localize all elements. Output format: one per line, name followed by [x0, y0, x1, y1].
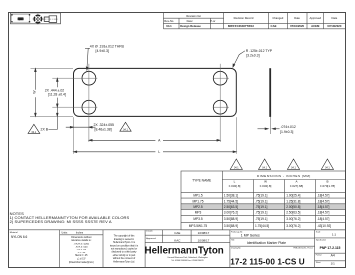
svg-text:1.00[25.4]: 1.00[25.4] — [286, 194, 300, 198]
svg-text:MP2.5: MP2.5 — [193, 205, 202, 209]
svg-text:.75[19.1]: .75[19.1] — [255, 211, 268, 215]
svg-text:3.50[88.9]: 3.50[88.9] — [224, 224, 238, 228]
svg-text:3.00[76.2]: 3.00[76.2] — [286, 217, 300, 221]
svg-text:2) SUPERCEDES DRAWING: MI SSSS: 2) SUPERCEDES DRAWING: MI SSSS SSS7E REV… — [10, 219, 112, 224]
svg-text:The copyright of this: The copyright of this — [114, 235, 136, 238]
svg-text:Metric ± .25: Metric ± .25 — [75, 254, 88, 257]
svg-text:(Drawn/Formatted)(mm): (Drawn/Formatted)(mm) — [69, 261, 94, 264]
revision table header text — [164, 14, 337, 23]
svg-text:.18[4.57]: .18[4.57] — [317, 199, 330, 203]
svg-text:2X B: 2X B — [41, 128, 49, 132]
svg-text:either wholly or in part: either wholly or in part — [113, 254, 136, 257]
svg-text:MP3: MP3 — [195, 211, 202, 215]
svg-text:PNP 17.2.115: PNP 17.2.115 — [320, 246, 341, 250]
edge distance dimension .324 — [66, 126, 96, 128]
svg-text:17-2 115-00 1-CS U: 17-2 115-00 1-CS U — [230, 258, 305, 267]
svg-text:Units:: Units: — [62, 232, 68, 235]
svg-text:[1.9±0.3]: [1.9±0.3] — [280, 130, 293, 134]
svg-text:1.25[31.8]: 1.25[31.8] — [286, 199, 300, 203]
revision table data row — [166, 24, 342, 28]
title block lines — [9, 230, 346, 268]
svg-text:04.1: 04.1 — [32, 131, 37, 134]
svg-text:04.1: 04.1 — [234, 167, 239, 170]
corner radius note — [233, 51, 245, 67]
drawn / approved rows — [146, 230, 156, 241]
svg-text:.43[10.92]: .43[10.92] — [317, 224, 331, 228]
svg-text:±.032[.8]: ±.032[.8] — [260, 184, 272, 188]
svg-text:ACEM: ACEM — [311, 24, 320, 28]
svg-text:Rev-No: Rev-No — [164, 19, 174, 23]
svg-text:Scale: Scale — [316, 231, 321, 233]
svg-text:MP1.75: MP1.75 — [193, 199, 204, 203]
svg-text:04.1: 04.1 — [291, 167, 296, 170]
hole top-right — [213, 71, 227, 85]
W dimension — [35, 68, 37, 116]
svg-text:Identification Marker Plate: Identification Marker Plate — [247, 241, 286, 245]
hole top-left — [82, 71, 96, 85]
svg-text:Date: Date — [294, 16, 300, 20]
svg-text:.18[4.57]: .18[4.57] — [317, 194, 330, 198]
svg-text:.75[19.1]: .75[19.1] — [255, 205, 268, 209]
svg-text:.XXX ± .005: .XXX ± .005 — [75, 246, 88, 248]
svg-text:Desc: Desc — [187, 19, 194, 23]
svg-text:2.00[50.8]: 2.00[50.8] — [286, 205, 300, 209]
svg-text:A4: A4 — [331, 254, 335, 258]
svg-text:P-or: P-or — [210, 19, 215, 23]
side view extension line — [269, 117, 271, 134]
svg-text:MP1.5: MP1.5 — [193, 194, 202, 198]
svg-text:[3.2±0.3]: [3.2±0.3] — [246, 53, 259, 57]
svg-text:Approved: Approved — [146, 237, 156, 240]
notes — [10, 211, 130, 224]
svg-text:±.032[.8]: ±.032[.8] — [229, 184, 241, 188]
svg-text:3.00[76.2]: 3.00[76.2] — [224, 211, 238, 215]
dimensions table header text — [192, 174, 335, 188]
svg-text:.18[4.57]: .18[4.57] — [317, 211, 330, 215]
revision table lines — [163, 13, 345, 29]
copyright cell — [110, 235, 139, 264]
svg-text:Tel: 01946 816600 Fax: 0194: Tel: 01946 816600 Fax: 01946 816611 — [171, 260, 203, 262]
svg-text:Cornwell Business Park, Salter: Cornwell Business Park, Salterbeck, Work… — [167, 256, 208, 259]
svg-text:10/08/17: 10/08/17 — [198, 238, 210, 242]
ps logo badge — [18, 17, 24, 20]
svg-text:04.1: 04.1 — [166, 24, 172, 28]
svg-text:MP3.5W1.75: MP3.5W1.75 — [189, 224, 208, 228]
svg-text:Drawing-No: Drawing-No — [231, 248, 241, 250]
svg-text:.074±.012: .074±.012 — [281, 125, 296, 129]
svg-text:8RFFFC26487TW13: 8RFFFC26487TW13 — [228, 24, 254, 28]
hole pitch dimension .444 — [56, 78, 58, 116]
ps logo box corner marks — [11, 14, 30, 22]
svg-text:HellermannTyton: HellermannTyton — [145, 245, 224, 256]
dimensions table data rows — [193, 194, 329, 198]
svg-text:not reproduced, copied or: not reproduced, copied or — [111, 248, 137, 251]
svg-text:.75[19.1]: .75[19.1] — [255, 199, 268, 203]
svg-text:.XX ± .01: .XX ± .01 — [77, 249, 87, 251]
svg-text:DIMENSIONS - INCHES [MM]: DIMENSIONS - INCHES [MM] — [257, 174, 311, 178]
side view plate thickness bar — [269, 68, 271, 117]
projection symbol box — [11, 13, 61, 24]
projection cone front view circle — [34, 15, 41, 22]
L dimension — [74, 151, 237, 153]
svg-text:HellermannTyton Ltd.: HellermannTyton Ltd. — [113, 261, 135, 264]
svg-text:∠ ± 0.5°: ∠ ± 0.5° — [77, 258, 86, 261]
svg-text:±.027[.68]: ±.027[.68] — [290, 184, 303, 188]
revision triangle 04.1 left — [28, 124, 40, 133]
hole bottom-left — [82, 100, 96, 114]
svg-text:04.1: 04.1 — [262, 167, 267, 170]
revision triangles above table — [230, 159, 333, 169]
svg-text:tolerance details to:: tolerance details to: — [71, 239, 92, 242]
svg-text:drawing is vested in: drawing is vested in — [114, 238, 135, 241]
svg-text:TYPE NAME: TYPE NAME — [192, 178, 212, 182]
scale / spec / format / sheet cells — [316, 231, 326, 264]
svg-text:Specification: Specification — [316, 239, 326, 242]
svg-text:CAE: CAE — [271, 24, 277, 28]
svg-text:1.50[38.1]: 1.50[38.1] — [224, 194, 238, 198]
svg-text:2.50[63.5]: 2.50[63.5] — [286, 211, 300, 215]
svg-text:.XXXX ± .0005: .XXXX ± .0005 — [74, 243, 90, 245]
dimensions table grey highlighted row — [181, 204, 345, 209]
svg-text:Changed: Changed — [272, 16, 283, 20]
svg-text:07/10/2020: 07/10/2020 — [327, 24, 341, 28]
svg-text:KAC: KAC — [174, 238, 181, 242]
ps logo box — [12, 15, 30, 23]
svg-text:Sheet: Sheet — [316, 261, 321, 264]
svg-text:Revision Record: Revision Record — [234, 16, 254, 20]
svg-text:04.1: 04.1 — [123, 128, 128, 131]
svg-text:.75[19.1]: .75[19.1] — [255, 194, 268, 198]
svg-text:[4.9±0.3]: [4.9±0.3] — [96, 49, 109, 53]
svg-text:Approved: Approved — [309, 16, 321, 20]
svg-text:Dimensions without: Dimensions without — [71, 236, 92, 239]
svg-text:disclosed to a third party: disclosed to a third party — [112, 251, 138, 254]
svg-text:.X ± .02: .X ± .02 — [77, 252, 86, 254]
centerlines — [30, 64, 236, 154]
svg-text:.18[4.57]: .18[4.57] — [317, 205, 330, 209]
svg-text:HellermannTyton. It is: HellermannTyton. It is — [113, 241, 136, 244]
svg-text:04.1: 04.1 — [325, 167, 330, 170]
revision triangle 04.1 mid — [120, 122, 131, 131]
projection cone side view — [44, 16, 57, 23]
svg-text:Design Release: Design Release — [180, 24, 201, 28]
svg-text:Title: Title — [231, 239, 234, 242]
svg-text:07/10/2020: 07/10/2020 — [290, 24, 304, 28]
svg-text:3.50[88.9]: 3.50[88.9] — [224, 217, 238, 221]
svg-text:Material: Material — [10, 231, 18, 234]
projection circle white cross — [34, 16, 41, 23]
projection cone centerline — [43, 18, 58, 20]
svg-text:.75[19.1]: .75[19.1] — [255, 217, 268, 221]
svg-text:L: L — [158, 150, 160, 154]
hole bottom-right — [213, 100, 227, 114]
thickness dimension — [258, 128, 280, 130]
svg-text:1:1: 1:1 — [332, 232, 337, 236]
svg-text:2.50[63.5]: 2.50[63.5] — [224, 205, 238, 209]
svg-text:Format: Format — [316, 254, 322, 257]
svg-text:1.75[44.5]: 1.75[44.5] — [224, 199, 238, 203]
svg-text:[11.28 ±0.4]: [11.28 ±0.4] — [48, 93, 66, 97]
svg-text:issued on condition that it is: issued on condition that it is — [110, 244, 139, 247]
svg-text:Revision list: Revision list — [186, 14, 201, 18]
svg-text:1.75[44.5]: 1.75[44.5] — [255, 224, 269, 228]
svg-text:1/1: 1/1 — [331, 262, 336, 266]
svg-text:PNE-0307-10/6 - Prot.cl.: PNE-0307-10/6 - Prot.cl. — [293, 247, 313, 250]
2X B leader and triangle — [49, 117, 58, 130]
svg-text:.18[4.57]: .18[4.57] — [317, 217, 330, 221]
A dimension — [89, 139, 220, 141]
svg-text:1 MP Series: 1 MP Series — [241, 233, 260, 237]
svg-text:B: B — [326, 179, 328, 183]
hole diameter note — [85, 48, 90, 70]
svg-text:A: A — [295, 179, 297, 183]
svg-text:W: W — [264, 179, 267, 183]
svg-text:±.070[1.78]: ±.070[1.78] — [320, 184, 335, 188]
dimensions table lines — [181, 171, 346, 230]
svg-text:Inches: Inches — [76, 232, 84, 235]
svg-text:without the consent of: without the consent of — [113, 257, 136, 260]
svg-text:Drawn: Drawn — [146, 230, 153, 233]
svg-text:[8.46±1.38]: [8.46±1.38] — [95, 127, 112, 131]
svg-text:3.00[76.2]: 3.00[76.2] — [286, 224, 300, 228]
svg-text:MP3.5: MP3.5 — [193, 217, 202, 221]
svg-text:NYLON 6.6: NYLON 6.6 — [11, 235, 28, 239]
svg-text:Date: Date — [332, 16, 338, 20]
plate outline — [74, 68, 237, 116]
svg-text:CAE: CAE — [174, 231, 180, 235]
svg-text:10/08/17: 10/08/17 — [198, 231, 210, 235]
projection circle centerline ticks — [33, 14, 44, 25]
